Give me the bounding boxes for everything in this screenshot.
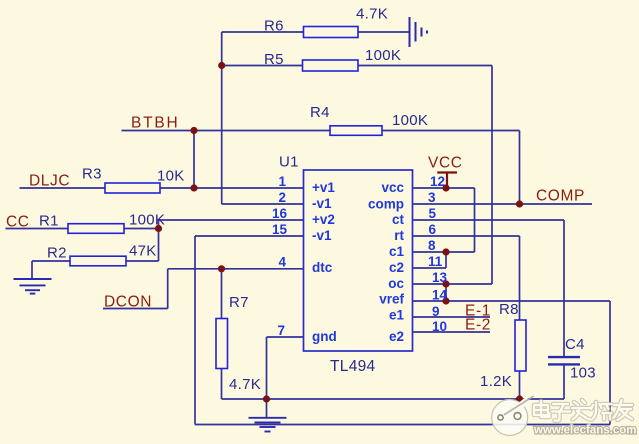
svg-text:R4: R4 [310,104,330,121]
svg-text:R3: R3 [82,166,102,183]
svg-text:DCON: DCON [104,294,152,311]
svg-text:DLJC: DLJC [29,173,70,190]
wire vertical DCON to pin4 [167,269,169,309]
wire R6 to ground [358,31,409,33]
ground top right rotated [410,17,428,47]
wire pin14 vref [412,300,610,302]
svg-text:-v1: -v1 [312,228,332,243]
svg-text:100K: 100K [392,112,428,129]
svg-text:c2: c2 [389,260,404,275]
node BTBH junction [190,127,197,134]
wire vertical R6-R5 to pin2 [221,32,223,204]
wire BTBH to R4 [122,130,331,132]
wire pin7 gnd [267,336,304,338]
svg-text:11: 11 [428,254,443,269]
wire pin4 dtc [168,268,304,270]
wire pin13 down to pin14 [445,284,447,301]
svg-text:ct: ct [392,212,405,227]
wire bottom rail [195,424,610,426]
svg-text:e1: e1 [389,308,405,323]
svg-text:TL494: TL494 [330,358,376,375]
ground left [14,279,52,294]
resistor R5 [303,60,359,71]
wire pin3 COMP [412,203,592,205]
wire pin16 [159,219,304,221]
svg-text:8: 8 [428,238,436,253]
wire pin8 c1 [412,251,475,253]
svg-text:4.7K: 4.7K [229,376,261,393]
svg-text:2: 2 [278,190,286,205]
capacitor C4 [548,357,580,364]
svg-text:47K: 47K [129,243,157,260]
svg-text:R6: R6 [264,18,284,35]
svg-text:oc: oc [388,276,404,291]
wire pin15 [195,235,304,237]
wire pin12 vcc [412,187,475,189]
node ground junction [263,395,270,402]
svg-text:C4: C4 [565,336,585,353]
svg-text:9: 9 [432,304,440,319]
svg-text:c1: c1 [389,244,405,259]
wire pin11 c2 [412,267,446,269]
watermark logo circle [492,397,533,436]
svg-text:103: 103 [570,365,596,382]
svg-text:13: 13 [432,270,448,285]
wire pin8 down to pin11 [445,252,447,268]
wire R2 right [126,260,159,262]
svg-text:10K: 10K [157,168,185,185]
wire R3 to pin1 [160,187,304,189]
svg-text:12: 12 [430,174,445,189]
svg-text:rt: rt [394,228,404,243]
svg-text:16: 16 [272,206,288,221]
svg-text:R2: R2 [47,245,67,262]
svg-text:3: 3 [428,190,436,205]
svg-text:e2: e2 [389,329,404,344]
svg-text:R7: R7 [229,294,249,311]
node R5 junction [218,62,225,69]
node R1/R2 junction [155,225,162,232]
wire DCON underline [103,308,168,310]
svg-text:100K: 100K [365,47,401,64]
wire pin12 down to pin8 [474,188,476,252]
wire pin10 E-2 [412,331,490,333]
svg-text:BTBH: BTBH [131,115,180,132]
svg-text:1.2K: 1.2K [480,373,512,390]
wire R7 top stem [221,269,223,319]
svg-text:15: 15 [272,222,288,237]
node pin14 junction [442,297,449,304]
svg-text:gnd: gnd [312,329,337,344]
resistor R3 [105,183,160,193]
wire DLJC to R3 [20,187,106,189]
svg-text:www.elecfans.com: www.elecfans.com [533,425,636,437]
svg-text:U1: U1 [279,154,299,171]
svg-text:E-2: E-2 [465,317,491,334]
resistor R2 [70,256,126,266]
node VCC junction [442,184,449,191]
svg-text:+v1: +v1 [312,180,335,195]
wire R4 right [382,130,520,132]
wire R6 row left [222,31,304,33]
resistor R7 [216,319,228,369]
resistor R1 [68,224,124,234]
wire vertical BTBH to pin1 line [193,131,195,189]
wire pin5 down to C4 [563,220,565,356]
svg-text:VCC: VCC [428,155,463,172]
resistor R8 [515,320,526,371]
wire ground stem center [266,399,268,418]
svg-text:CC: CC [6,214,30,231]
power VCC bar [437,173,457,189]
svg-text:comp: comp [368,197,404,212]
wire pin13 oc [412,283,492,285]
resistor R6 [304,27,359,38]
ground bottom center [249,418,287,432]
wire CC to R1 [6,228,69,230]
wire pin5 ct [412,219,564,221]
wire pin7 down [266,337,268,399]
wire R8 bottom stem [519,371,521,399]
node DLJC/pin1 junction [190,184,197,191]
node dtc/R7 junction [218,265,225,272]
wire R2 to ground [31,261,33,278]
wire pin6 rt [412,235,520,237]
wire vertical pin15 to bottom rail [194,236,196,425]
wire mid rail R7 to C4 [222,398,565,400]
resistor R4 [330,126,382,136]
wire R5 row right [358,65,492,67]
svg-text:100K: 100K [129,212,165,229]
svg-text:-v1: -v1 [312,196,332,211]
svg-text:4.7K: 4.7K [356,6,388,23]
node COMP junction [516,200,523,207]
svg-text:COMP: COMP [536,188,585,205]
wire pin9 E-1 [412,316,490,318]
wire vertical R1-R2 to pin16 [158,220,160,261]
svg-text:+v2: +v2 [312,212,335,227]
wire C4 bottom stem [563,366,565,400]
wire vertical R4 to COMP [519,131,521,205]
node R8 bottom junction [516,395,523,402]
svg-text:vcc: vcc [381,180,404,195]
node pin13 junction [442,280,449,287]
svg-text:vref: vref [379,292,404,307]
wire vertical bottom rail to pin14 [609,301,611,425]
wire R1 right [124,228,159,230]
svg-text:10: 10 [432,319,447,334]
svg-text:4: 4 [278,255,286,270]
svg-text:R1: R1 [39,213,59,230]
svg-text:1: 1 [278,174,286,189]
svg-text:R5: R5 [264,51,284,68]
svg-text:R8: R8 [499,301,519,318]
wire vertical R5 to pin13 [491,66,493,285]
wire R2 left [32,260,70,262]
IC U1 TL494 body [304,170,413,351]
wire pin6 down to R8 [519,236,521,320]
wire R5 row left [222,65,303,67]
watermark text CJK strokes [534,400,632,421]
svg-text:dtc: dtc [312,260,333,275]
node pin8 junction [442,248,449,255]
svg-text:6: 6 [429,222,437,237]
wire R7 bottom stem [221,369,223,400]
wire pin2 [222,203,304,205]
svg-text:5: 5 [429,206,437,221]
svg-text:14: 14 [432,288,448,303]
svg-text:7: 7 [277,323,285,338]
